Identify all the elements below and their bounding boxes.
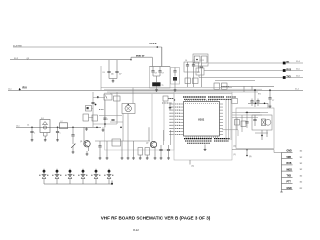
svg-text:1/2: 1/2 bbox=[300, 157, 303, 159]
wire bus 2 bbox=[104, 88, 262, 90]
capacitor C13 bbox=[200, 63, 203, 87]
node ladder dot bbox=[174, 99, 175, 100]
wire net RX antenna line bbox=[8, 89, 303, 91]
svg-text:1/2: 1/2 bbox=[300, 182, 303, 184]
IC U1 label bbox=[198, 118, 205, 122]
ground g122 bbox=[121, 141, 124, 159]
svg-text:GND: GND bbox=[287, 151, 292, 153]
wire bundle v1 bbox=[225, 100, 227, 140]
capacitor C9 bbox=[158, 67, 163, 77]
svg-text:C4: C4 bbox=[185, 60, 187, 62]
IC U1 body bbox=[184, 102, 220, 137]
svg-text:C8: C8 bbox=[155, 73, 157, 75]
wire Q1 base bbox=[84, 127, 85, 144]
wire vert x128 bbox=[127, 114, 129, 142]
IC U1 left pin labels bbox=[170, 104, 181, 135]
ground under C72 bbox=[269, 106, 272, 107]
svg-text:GND: GND bbox=[287, 188, 292, 190]
node label C21 bbox=[27, 125, 29, 127]
svg-text:(1): (1) bbox=[234, 154, 237, 156]
crystal X71 bbox=[262, 119, 266, 126]
wire Q1 emitter bbox=[87, 147, 89, 154]
svg-text:Q2: Q2 bbox=[146, 143, 148, 145]
svg-text:PTT: PTT bbox=[287, 182, 292, 184]
svg-text:5C-4: 5C-4 bbox=[296, 61, 300, 63]
box B2 bbox=[112, 139, 121, 146]
svg-text:1/2: 1/2 bbox=[300, 169, 303, 171]
node junction on B+ rail bbox=[150, 44, 159, 48]
transistor Q1 bbox=[80, 141, 90, 147]
box with C11 C12 bbox=[184, 62, 199, 72]
svg-text:R71: R71 bbox=[258, 94, 261, 96]
wire U3 drop bbox=[198, 66, 200, 78]
svg-text:(5): (5) bbox=[192, 166, 195, 168]
varactor D6 bbox=[104, 169, 114, 184]
trimmer CT1 bbox=[71, 143, 75, 151]
svg-text:L2: L2 bbox=[61, 121, 63, 123]
wire vert v237 bbox=[236, 118, 238, 131]
resistor R11 bbox=[185, 78, 191, 84]
flag B1 bbox=[283, 61, 303, 64]
wire box exit bbox=[190, 160, 194, 168]
capacitor C22 bbox=[56, 131, 62, 139]
wire h124 bbox=[93, 123, 117, 125]
node junction c72 bbox=[269, 89, 271, 97]
ground under C21 bbox=[31, 140, 34, 141]
wire mid right h80 bbox=[215, 80, 255, 82]
wire Q2 conns bbox=[149, 127, 155, 157]
label row above C11 bbox=[185, 60, 202, 62]
svg-text:1/2: 1/2 bbox=[300, 175, 303, 177]
capacitor C21 bbox=[30, 131, 36, 139]
svg-text:R3: R3 bbox=[103, 72, 105, 74]
net stub PTT 1/2 bbox=[282, 182, 303, 184]
node junction j57 bbox=[57, 127, 59, 132]
ground g140 bbox=[139, 155, 142, 159]
IC U1 top pin numbers bbox=[185, 103, 218, 105]
varactor D5 bbox=[91, 169, 101, 184]
label marks mid bbox=[99, 109, 104, 111]
wire J1 line bbox=[16, 126, 101, 128]
svg-text:C9: C9 bbox=[162, 73, 164, 75]
node label (3) bbox=[246, 149, 252, 158]
box V1 bbox=[104, 94, 112, 100]
ground under Q1 bbox=[86, 154, 89, 155]
capacitor C75 bbox=[253, 115, 256, 126]
svg-text:5C-2: 5C-2 bbox=[14, 58, 18, 60]
diode D2 bbox=[173, 77, 177, 81]
flag TX5 bbox=[283, 76, 303, 79]
wire vert v242 bbox=[241, 115, 243, 132]
wire h115 bbox=[99, 114, 122, 116]
wire ic right y130 bbox=[222, 130, 238, 136]
mixer U2 bbox=[122, 104, 135, 114]
wire bus 1 bbox=[101, 87, 232, 89]
svg-text:C1: C1 bbox=[27, 125, 29, 127]
wire vco stems bbox=[261, 130, 267, 140]
ground g134 bbox=[132, 141, 135, 159]
capacitor C31 bbox=[98, 141, 101, 158]
ground g155 bbox=[154, 158, 157, 159]
wire vert x133 bbox=[132, 88, 134, 104]
wire RX line end label bbox=[295, 88, 299, 90]
IC U1 right pins bbox=[220, 104, 224, 135]
flag RX5 bbox=[283, 69, 303, 72]
node dots j1line bbox=[96, 127, 122, 129]
wire vert x123 bbox=[122, 114, 124, 142]
wire vert x170 bbox=[170, 130, 172, 145]
node junction rx-vco bbox=[254, 89, 256, 107]
resistor R21 bbox=[235, 120, 240, 126]
box right top bbox=[232, 99, 238, 104]
box U3 cell a bbox=[194, 56, 200, 63]
wire ladder stub bbox=[169, 104, 172, 109]
wire cap join bbox=[109, 79, 117, 81]
wire drops to bus bbox=[188, 72, 194, 87]
wire bus 3 bbox=[107, 91, 258, 93]
transistor Q2 bbox=[146, 141, 157, 147]
net stub TXB 1/2 bbox=[282, 175, 303, 177]
wire IC right band 1 bbox=[232, 112, 260, 114]
svg-text:C7: C7 bbox=[119, 73, 121, 75]
capacitor C8 bbox=[151, 67, 156, 77]
capacitor C6 bbox=[107, 60, 113, 79]
wire IC right band 2 bbox=[232, 114, 262, 116]
IC U1 top pin labels row2 bbox=[184, 98, 232, 100]
ground g128 bbox=[127, 141, 130, 159]
capacitor C23t bbox=[71, 135, 74, 144]
resistor R8 bbox=[145, 148, 150, 156]
svg-text:C6: C6 bbox=[111, 73, 113, 75]
ground g168 bbox=[167, 158, 170, 159]
svg-text:TXB: TXB bbox=[287, 176, 292, 178]
svg-text:RXB: RXB bbox=[287, 163, 292, 165]
ground under FL1 bbox=[44, 140, 47, 141]
capacitor C33 bbox=[167, 145, 170, 158]
node RX junction arrow bbox=[19, 88, 21, 91]
wire h141 bbox=[95, 140, 150, 142]
label ladder marks bbox=[162, 99, 174, 104]
label (2) bbox=[234, 146, 237, 148]
capacitor C7 bbox=[115, 60, 121, 79]
capacitor C28 bbox=[111, 120, 114, 121]
IC U1 bottom pins bbox=[186, 136, 218, 138]
ground g86 bbox=[85, 127, 88, 130]
filter FL1 bbox=[40, 118, 50, 133]
ground under C31 bbox=[99, 158, 102, 159]
title text bbox=[101, 216, 211, 221]
label above bus right bbox=[221, 86, 229, 88]
svg-text:J1-1: J1-1 bbox=[8, 89, 12, 91]
wire cluster top bbox=[150, 67, 171, 77]
ground g147 bbox=[146, 155, 149, 159]
ground under D2 bbox=[174, 90, 177, 91]
box W2 bbox=[83, 114, 93, 121]
svg-text:C7: C7 bbox=[272, 100, 274, 102]
small box C10 cluster bbox=[171, 68, 180, 85]
shield box left section bbox=[105, 93, 175, 150]
svg-text:T1: T1 bbox=[162, 85, 164, 87]
ferrite bead FB1 bbox=[152, 82, 163, 87]
capacitor C10 bbox=[173, 68, 176, 77]
box ladder L1 bbox=[163, 96, 168, 101]
wire vert v247 bbox=[245, 113, 248, 129]
wire FL1 stems bbox=[44, 133, 48, 140]
wire vert x117 bbox=[116, 92, 118, 124]
wire bundle v2 bbox=[228, 100, 230, 142]
box U3 cell b bbox=[202, 56, 208, 63]
svg-text:2/2: 2/2 bbox=[300, 188, 303, 190]
box W1 bbox=[86, 106, 94, 112]
ground under C6 C7 bbox=[112, 81, 115, 82]
net stub MOD 1/2 bbox=[282, 169, 303, 171]
svg-text:J2-1: J2-1 bbox=[16, 126, 20, 128]
resistor R14 bbox=[214, 83, 220, 90]
varactor D4 bbox=[78, 169, 88, 184]
filter box FL2 outline bbox=[150, 67, 171, 89]
box R13 bbox=[196, 68, 204, 75]
wire B+ rail drop bbox=[161, 47, 163, 67]
IC U1 top pins bbox=[186, 100, 218, 102]
connector spine bbox=[280, 153, 282, 193]
wire to connector bbox=[232, 150, 282, 153]
svg-text:1/2: 1/2 bbox=[300, 163, 303, 165]
svg-text:R2: R2 bbox=[198, 72, 200, 74]
wire vert x101 bbox=[101, 66, 105, 90]
capacitor C72 bbox=[268, 98, 274, 106]
capacitor C73 bbox=[250, 99, 253, 107]
IC U1 bottom pin labels row2 bbox=[185, 140, 228, 142]
wire IC right band 3 bbox=[232, 117, 258, 119]
wire flag net 1 bbox=[208, 62, 283, 64]
svg-text:5RB: 5RB bbox=[287, 157, 292, 159]
box L3 bbox=[92, 115, 98, 121]
transistor Q71 bbox=[265, 119, 271, 125]
svg-text:FL1: FL1 bbox=[41, 118, 44, 120]
wire D2 stem bbox=[174, 81, 176, 90]
wire h122b bbox=[110, 121, 123, 123]
ground under C22 bbox=[56, 140, 59, 141]
capacitor C11 bbox=[186, 62, 189, 72]
capacitor C24 bbox=[91, 103, 96, 106]
wire flag net 3 bbox=[199, 77, 283, 79]
varactor D2 bbox=[52, 169, 62, 184]
ground g103 bbox=[102, 127, 105, 131]
ground g161 bbox=[160, 158, 163, 159]
wire vco top net bbox=[248, 103, 268, 109]
shield box VCO bbox=[236, 108, 274, 149]
wire 5V drop bbox=[151, 57, 153, 66]
resistor R15 bbox=[222, 83, 228, 90]
wire vert x93 bbox=[92, 92, 94, 127]
wire vert x105 bbox=[104, 100, 106, 127]
box U3 regulator outer bbox=[193, 54, 208, 66]
svg-text:RXI: RXI bbox=[23, 86, 27, 89]
capacitor C32 bbox=[159, 145, 162, 158]
net stub GND 2/2 bbox=[282, 188, 303, 190]
IC U1 bottom pin labels row3 bbox=[187, 142, 210, 144]
shield box IC section bbox=[174, 92, 232, 160]
capacitor C25 bbox=[103, 118, 109, 121]
node junction j32 bbox=[31, 127, 33, 132]
svg-text:Q1: Q1 bbox=[80, 141, 82, 143]
svg-text:5C-3 RXB: 5C-3 RXB bbox=[13, 45, 22, 47]
svg-text:5C-5: 5C-5 bbox=[296, 69, 300, 71]
net label MOD 5V bbox=[136, 56, 145, 58]
resistor R22 bbox=[241, 121, 246, 127]
wire mid right h86 bbox=[222, 86, 274, 92]
net stub RXB 1/2 bbox=[282, 163, 303, 165]
capacitor C74 bbox=[256, 99, 259, 107]
wire net B+ top rail bbox=[13, 45, 162, 47]
svg-text:MOD 5V: MOD 5V bbox=[136, 56, 145, 58]
wire bundle v3 bbox=[230, 100, 232, 140]
svg-text:1/2: 1/2 bbox=[300, 151, 303, 153]
wire varactor rail bbox=[44, 181, 113, 185]
box VCO inner bbox=[252, 115, 272, 130]
IC U1 bottom pin labels row1 bbox=[184, 138, 230, 140]
capacitor C12 bbox=[192, 62, 195, 72]
wire vert x163 bbox=[163, 130, 165, 145]
IC U1 left pins bbox=[180, 104, 183, 135]
page number bbox=[133, 228, 139, 232]
node junction j73 bbox=[72, 127, 74, 135]
IC U1 top pin labels row1 bbox=[183, 96, 236, 98]
inductor L2 bbox=[60, 121, 68, 129]
varactor D3 bbox=[65, 169, 75, 184]
svg-text:(2): (2) bbox=[234, 146, 237, 148]
net stub GND 1/2 bbox=[282, 151, 303, 153]
varactor D1 bbox=[39, 169, 49, 184]
wire vert x164 bbox=[163, 101, 165, 141]
node Q5 label on 5V rail bbox=[27, 58, 31, 60]
net stub 5RB 1/2 bbox=[282, 157, 303, 159]
wire d107 bbox=[106, 141, 108, 158]
node blob top bbox=[93, 96, 105, 98]
net label RXI bbox=[23, 86, 27, 89]
svg-text:(3): (3) bbox=[249, 156, 252, 158]
resistor R7 bbox=[138, 148, 143, 156]
ground under CT1 bbox=[72, 152, 75, 153]
wire vco bottom bbox=[255, 132, 268, 134]
wire bus 4 bbox=[110, 93, 232, 95]
svg-text:8-12: 8-12 bbox=[133, 228, 139, 232]
wire gnd stub u1 bbox=[204, 145, 207, 151]
svg-text:U101: U101 bbox=[198, 118, 205, 122]
wire verts to Q2 bbox=[151, 94, 153, 141]
node junction 5V step bbox=[130, 57, 152, 60]
label (1) bbox=[234, 154, 237, 156]
wire bead stem bbox=[156, 76, 158, 90]
ground g107 bbox=[106, 158, 109, 159]
svg-text:VHF RF BOARD SCHEMATIC VER B (: VHF RF BOARD SCHEMATIC VER B (PAGE 3 OF … bbox=[101, 216, 211, 221]
resistor R12 bbox=[193, 78, 199, 84]
wire net 5V rail bbox=[10, 58, 131, 60]
label near vco top bbox=[258, 94, 261, 96]
svg-text:5C-1: 5C-1 bbox=[295, 88, 299, 90]
box V2 bbox=[114, 96, 121, 101]
wire vco inner h112 bbox=[245, 112, 268, 114]
svg-text:5C-6: 5C-6 bbox=[296, 76, 300, 78]
svg-text:MOD: MOD bbox=[287, 169, 293, 171]
ground under FB1 bbox=[155, 90, 158, 91]
wire flag net 2 bbox=[204, 70, 283, 72]
